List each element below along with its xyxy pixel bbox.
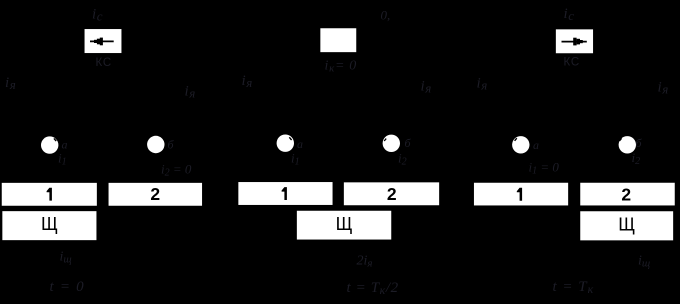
svg-text:2: 2 xyxy=(621,184,631,204)
svg-text:б: б xyxy=(636,136,643,150)
svg-text:а: а xyxy=(533,138,539,152)
svg-text:а: а xyxy=(62,138,68,152)
svg-text:Щ: Щ xyxy=(618,214,635,234)
svg-text:КС: КС xyxy=(564,57,580,69)
svg-text:iя: iя xyxy=(658,80,669,97)
svg-text:t = Tк/2: t = Tк/2 xyxy=(347,280,399,297)
svg-text:iя: iя xyxy=(5,75,16,92)
svg-text:iя: iя xyxy=(421,79,432,96)
svg-text:Щ: Щ xyxy=(41,214,58,234)
svg-text:2: 2 xyxy=(150,184,160,204)
svg-text:t = Tк: t = Tк xyxy=(553,279,595,296)
svg-text:iс: iс xyxy=(92,7,103,24)
svg-text:iя: iя xyxy=(185,84,196,101)
svg-text:КС: КС xyxy=(96,57,112,69)
svg-text:iя: iя xyxy=(242,73,253,90)
svg-text:0,: 0, xyxy=(381,8,391,23)
svg-text:б: б xyxy=(405,136,412,150)
svg-text:б: б xyxy=(168,138,175,152)
svg-text:2: 2 xyxy=(387,184,397,204)
svg-text:Щ: Щ xyxy=(336,214,353,234)
svg-text:а: а xyxy=(297,137,303,151)
svg-text:t = 0: t = 0 xyxy=(50,279,85,295)
svg-text:iс: iс xyxy=(564,6,575,23)
svg-text:iя: iя xyxy=(477,76,488,93)
